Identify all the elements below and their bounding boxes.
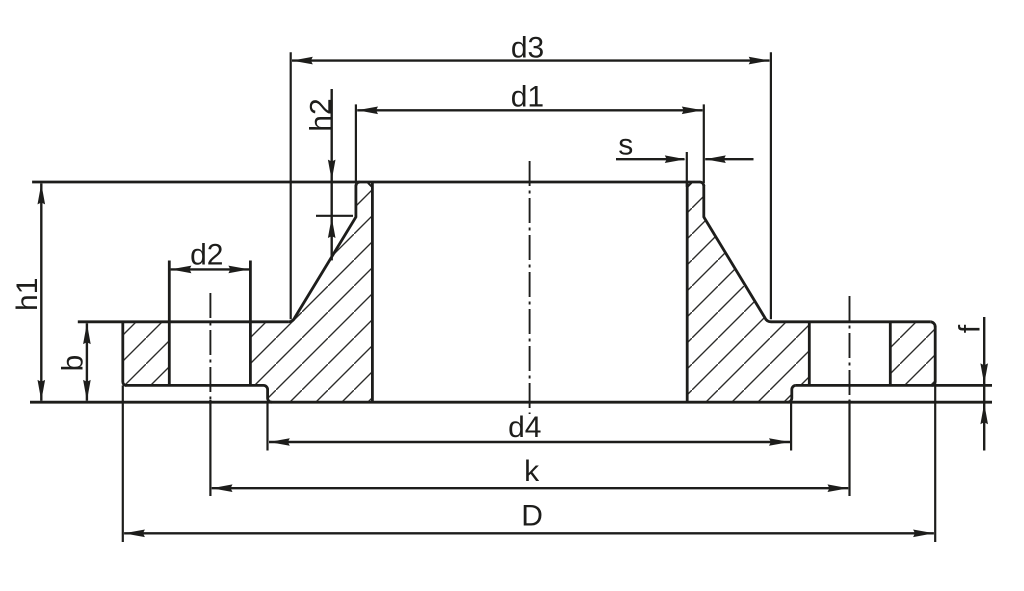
bolt center line right extension for k [848,400,850,496]
bore top chamfer left [368,183,372,187]
bolt center line left extension for k [209,400,211,496]
svg-text:d2: d2 [190,239,223,272]
svg-text:s: s [618,129,633,162]
dimension h2 upper [331,89,333,216]
hatch right hub/neck section [687,182,809,402]
dimension line k [212,487,849,489]
bore wall left [371,182,374,402]
dimension line s right [705,158,753,160]
bolt hole wall left-inner with d2 extension [249,261,252,386]
bolt hole wall right-outer [889,322,892,386]
extension line d1 left [355,104,357,183]
raised face bottom line with h1 b f extensions [30,401,992,404]
neck top left rounded corner [356,182,360,186]
neck outer wall right [702,185,705,218]
svg-text:b: b [57,355,90,372]
dimension line d1 [357,109,702,111]
dimension line d4 [269,441,790,443]
flange top face right [771,320,930,323]
hatch left ring section [123,322,170,386]
svg-text:d1: d1 [511,81,544,114]
dimension line b [86,323,88,401]
dimension line d2 [171,268,250,270]
dimension line f [983,317,985,451]
dimension line s left [616,158,685,160]
bore wall right [686,182,689,402]
bolt hole wall right-inner [808,322,811,386]
neck top face line [32,181,700,184]
svg-text:D: D [521,499,543,532]
vertical center line [529,161,531,414]
flange outer wall right [932,326,936,385]
extension line d1 right [703,104,705,183]
dimension line h1 [40,184,42,401]
svg-text:h2: h2 [305,98,338,131]
hatch right ring section [890,322,935,386]
hub taper right [704,217,771,322]
extension line d4 left [266,402,268,450]
extension line d4 right [790,402,792,450]
raised face step right [788,385,796,402]
dimension line D [124,532,934,534]
svg-text:d3: d3 [511,32,544,65]
extension line d3 right [770,52,772,319]
flange bottom annular face left [125,384,264,387]
extension line s inner [686,152,688,187]
bolt hole center line right [849,296,851,405]
dimension line d3 [292,59,770,61]
flange top right rounded corner [930,322,935,327]
svg-text:d4: d4 [508,411,541,444]
raised face step left [264,385,272,402]
flange outer wall left [123,322,127,386]
neck top right rounded corner [700,182,704,186]
bore top chamfer right [687,183,691,187]
svg-text:h1: h1 [11,278,44,311]
hatch left hub/neck section [250,182,372,402]
svg-text:f: f [953,324,986,333]
extension line D left [122,385,124,542]
extension line D right [934,385,936,542]
flange bottom annular face right plus f extension [796,384,992,387]
bolt hole center line left [209,293,211,405]
bolt hole wall left-outer with d2 extension [168,261,171,386]
neck outer wall left [354,185,357,218]
hub taper left [289,217,356,322]
dimension h2 lower [331,216,333,261]
extension line d3 left [290,52,292,319]
svg-text:k: k [524,455,540,488]
flange top face left [78,320,289,323]
extension tick h2 [316,215,353,217]
